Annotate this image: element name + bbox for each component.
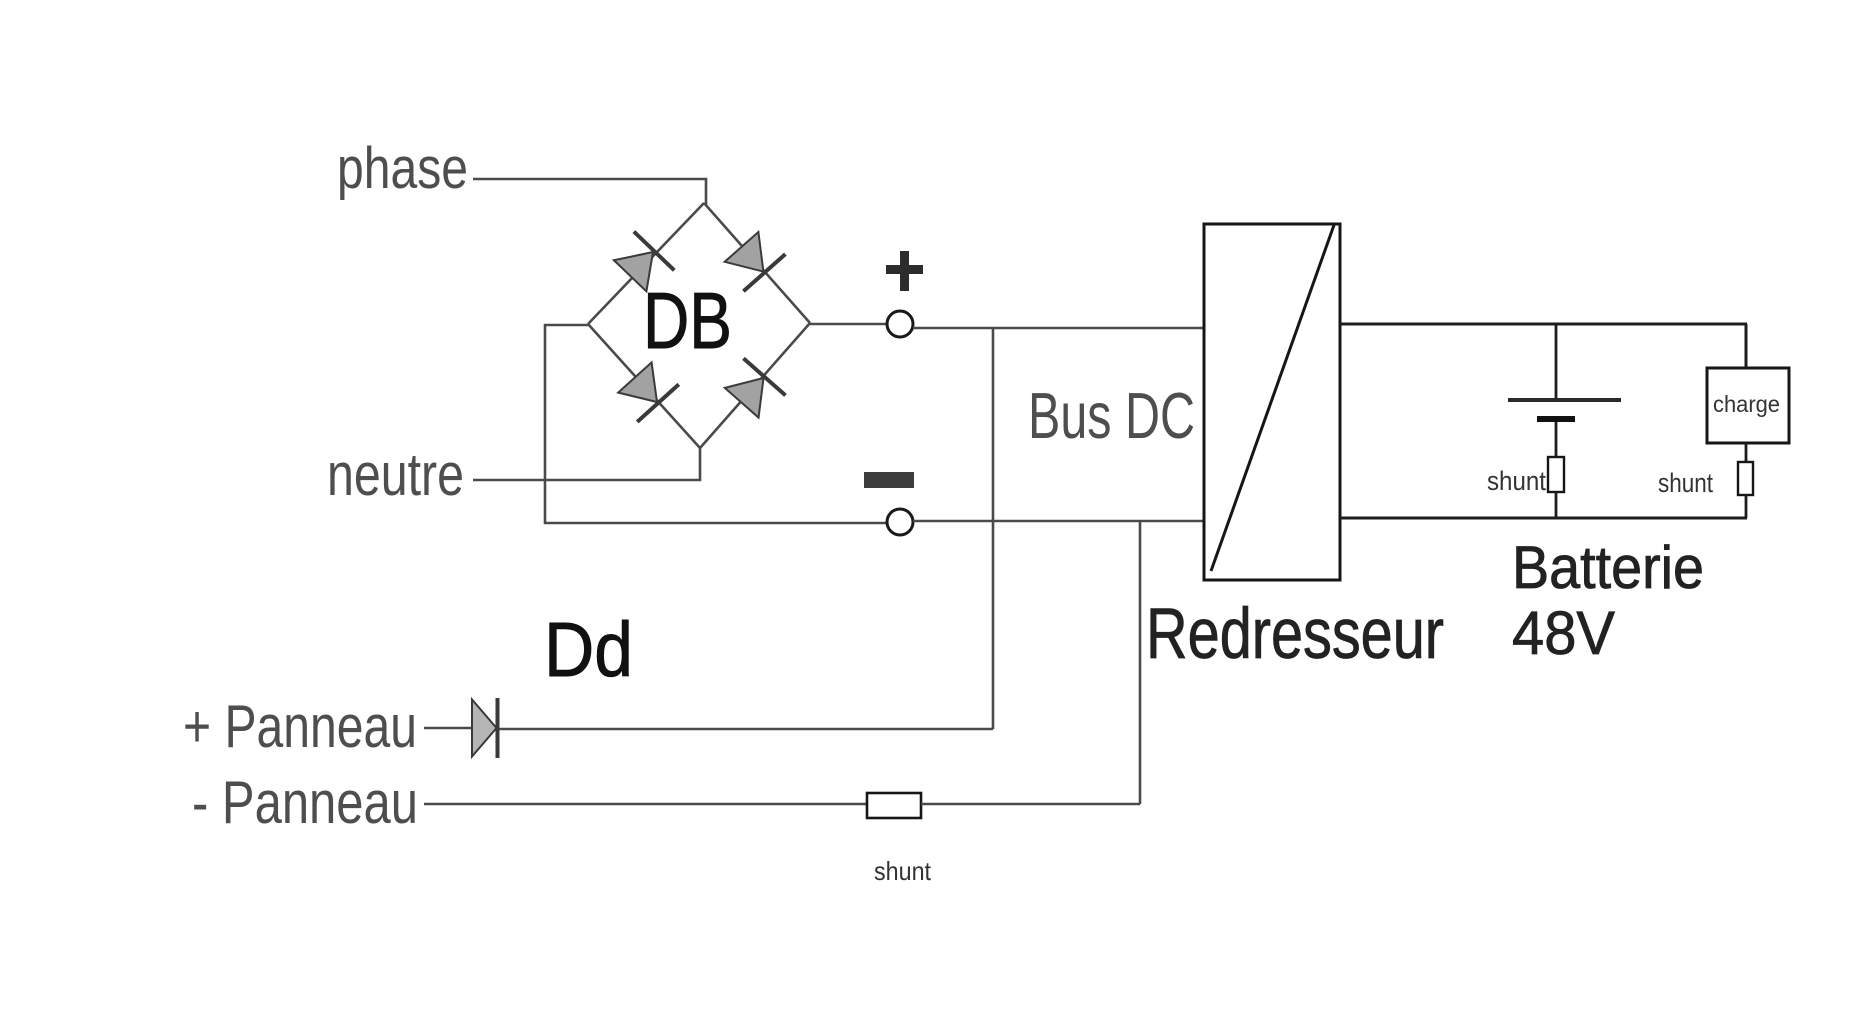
rectifier box U1: [1204, 224, 1340, 580]
diode D4 bottom-right of bridge DB: [721, 358, 786, 421]
shunt resistor R2: [1738, 462, 1753, 495]
bridge arm wire bottom-left: [588, 324, 700, 448]
wire shunt R1 to bottom bus: [1555, 492, 1558, 518]
battery BT1 plate long: [1508, 398, 1621, 402]
bridge arm wire top-left: [588, 203, 704, 324]
battery BT1 plate short: [1537, 416, 1575, 422]
svg-text:Bus DC: Bus DC: [1028, 379, 1195, 452]
svg-text:- Panneau: - Panneau: [192, 769, 418, 836]
svg-text:shunt: shunt: [874, 856, 932, 886]
wire plus bus to rectifier: [913, 327, 1205, 330]
shunt resistor R1: [1548, 457, 1564, 492]
svg-text:shunt: shunt: [1658, 468, 1713, 498]
shunt resistor R3: [867, 793, 921, 818]
wire charge box to shunt R2: [1745, 443, 1748, 462]
load box charge: [1707, 368, 1789, 443]
wire phase to bridge top: [473, 179, 706, 205]
diode D2 top-right of bridge DB: [721, 228, 786, 291]
svg-text:48V: 48V: [1512, 599, 1615, 667]
diode Dd solar panel: [472, 698, 498, 758]
wire +Panneau to diode Dd: [424, 727, 473, 730]
svg-text:Batterie: Batterie: [1512, 534, 1704, 601]
diode D1 top-left of bridge DB: [610, 232, 674, 296]
wire battery-bus top: [1340, 323, 1747, 326]
svg-text:Redresseur: Redresseur: [1146, 595, 1444, 674]
wire shunt R3 to minus-bus junction: [921, 803, 1140, 806]
wire bridge right vertex to plus terminal: [810, 323, 887, 326]
terminal circle minus: [887, 509, 913, 535]
wire left vertex jog down to minus rail: [545, 325, 887, 523]
wire battery-bus bottom: [1340, 517, 1747, 520]
bridge arm wire top-right: [704, 203, 810, 323]
svg-text:phase: phase: [337, 136, 468, 201]
diode D3 bottom-left of bridge DB: [614, 359, 679, 422]
wire neutre to bridge bottom: [473, 448, 700, 480]
wire node plus-bus down to panel diode: [992, 328, 995, 729]
wire diode Dd to plus-bus junction: [499, 728, 993, 731]
svg-text:+ Panneau: + Panneau: [183, 693, 417, 760]
wire shunt R2 to bottom bus: [1745, 495, 1748, 518]
bridge arm wire bottom-right: [700, 323, 810, 448]
svg-text:neutre: neutre: [327, 441, 464, 508]
plus sign at DC output: [886, 251, 923, 291]
wire -Panneau to shunt R3: [424, 803, 867, 806]
svg-text:charge: charge: [1713, 391, 1780, 417]
svg-text:shunt: shunt: [1487, 466, 1546, 496]
rectifier diagonal: [1211, 225, 1334, 571]
svg-text:DB: DB: [643, 276, 732, 365]
wire charge branch top: [1745, 324, 1748, 368]
minus sign at DC output: [864, 472, 914, 488]
svg-text:Dd: Dd: [544, 607, 633, 693]
wire node minus-bus down to panel shunt: [1139, 521, 1142, 804]
wire minus bus to rectifier: [913, 520, 1205, 523]
wire battery top lead: [1555, 324, 1558, 400]
wire battery to shunt R1: [1555, 422, 1558, 457]
terminal circle plus: [887, 311, 913, 337]
